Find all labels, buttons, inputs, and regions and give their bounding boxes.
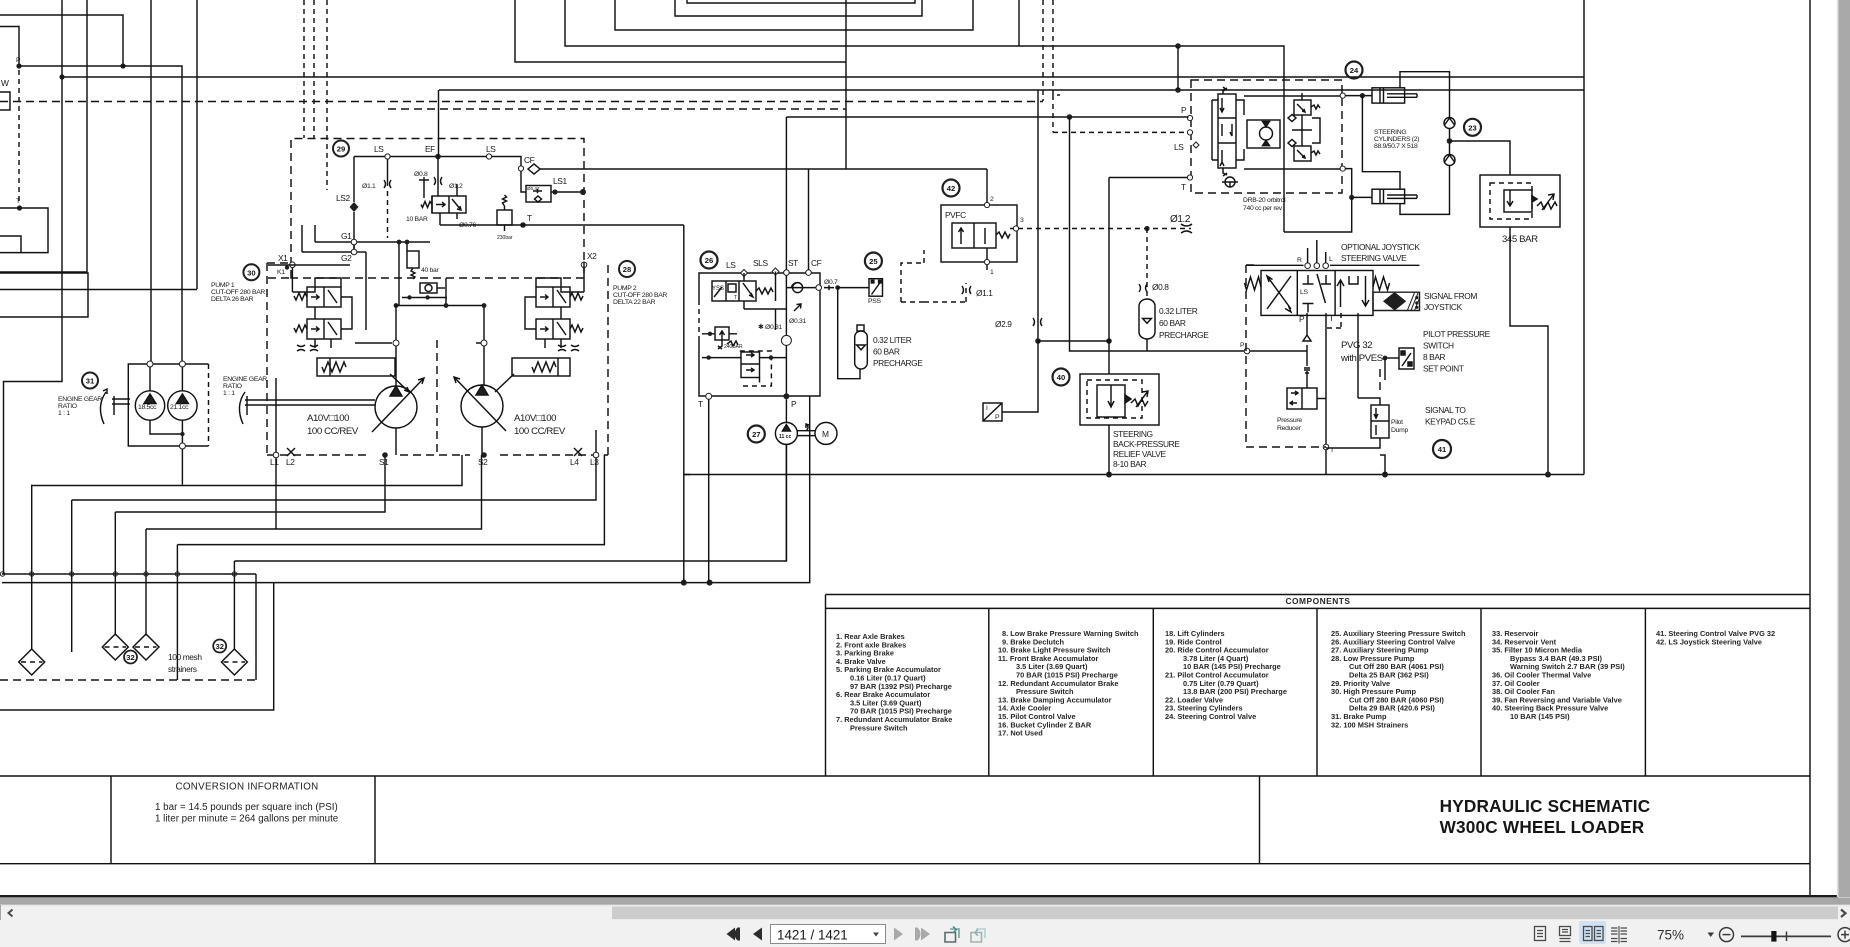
- accumulator 25: [855, 325, 868, 369]
- wire: top nested loop y16: [675, 0, 922, 16]
- dashed box PVG area: [1246, 265, 1380, 447]
- port S1: [382, 452, 388, 458]
- wire: P26 to pump27 and suction: [785, 399, 787, 561]
- wire: cyl2 rod side loop: [1400, 166, 1450, 215]
- gray band under sheet: [0, 897, 1850, 904]
- title divider: [1259, 777, 1261, 864]
- wire: CF to LS1 block: [521, 171, 583, 192]
- wire: x123 from top: [0, 15, 123, 66]
- shaft symbol 31: [112, 396, 130, 415]
- wire: L line to cyl1: [1345, 95, 1372, 97]
- svg-text:COMPONENTS: COMPONENTS: [1285, 596, 1350, 606]
- wire: LS drop dashed: [1326, 313, 1341, 328]
- svg-text:R: R: [1297, 257, 1302, 264]
- svg-text:Ø0.8: Ø0.8: [414, 171, 428, 178]
- joystick symbol: [1373, 292, 1420, 310]
- label circle 32 b: [213, 640, 226, 653]
- svg-text:Ø1.2: Ø1.2: [449, 183, 463, 190]
- wire: relief to bottom: [1510, 227, 1548, 475]
- relief valve small: [497, 195, 512, 231]
- wire: accumulator branch: [838, 288, 860, 379]
- wire: strainer drop x177.4: [176, 545, 178, 680]
- label circle 28: [619, 261, 635, 277]
- wire: dashed inner y109: [388, 108, 846, 110]
- wire: strainer trunk line y574: [2, 573, 256, 575]
- wire: strainer drop x71.7: [71, 500, 73, 652]
- wire: dashed P-T vertical left: [18, 70, 20, 204]
- valve: pump1 ctrl B: [307, 319, 341, 339]
- svg-text:25: 25: [869, 257, 878, 266]
- valve: pump2 ctrl B: [536, 319, 570, 339]
- wire: X1 line: [268, 265, 350, 292]
- orbitrol springs: [1223, 87, 1227, 176]
- node trunk junctions: [0, 572, 236, 576]
- label circle 27: [748, 426, 765, 443]
- table bottom strip line full width: [0, 775, 1810, 777]
- wire: dashed drops x304 x314 x327: [304, 0, 327, 190]
- shaft symbol engine 2: [245, 396, 375, 415]
- zoom slider: [1741, 935, 1831, 937]
- svg-text:30: 30: [247, 268, 255, 277]
- check valve bottom: [1444, 155, 1455, 166]
- components table outline: [826, 595, 1811, 777]
- dashed region steering inner: [924, 229, 1191, 303]
- port T orbitrol: [1187, 175, 1192, 180]
- wire: reservoir dashed top y680: [0, 679, 256, 681]
- port R orbitrol right: [1340, 166, 1345, 171]
- wire: pump31 internals: [150, 367, 182, 443]
- node dot PSS branch: [835, 285, 840, 290]
- wire: x1038 down to IP: [1002, 341, 1038, 412]
- svg-text:LS2: LS2: [336, 193, 350, 203]
- svg-text:L4: L4: [570, 457, 579, 467]
- wire: to 345 relief: [1450, 141, 1511, 175]
- svg-text:28: 28: [623, 265, 631, 274]
- wire: drop x709.6 from block26 T: [708, 399, 710, 582]
- wire: fan line y484.6: [32, 455, 462, 486]
- hscroll thumb: [612, 907, 1838, 920]
- label circle 32 a: [124, 651, 137, 664]
- dashed box pumps: [267, 263, 608, 455]
- wire: pump2 valve stubs: [525, 278, 584, 348]
- svg-text:18.5cc: 18.5cc: [138, 404, 157, 411]
- label circle 42: [943, 180, 960, 197]
- wire: frame right edge: [1583, 0, 1585, 475]
- label circle 23: [1464, 119, 1481, 136]
- orifice 0.31 arrow: [794, 304, 801, 311]
- wire: fan line y529: [146, 455, 482, 529]
- stroker: pump2: [495, 358, 570, 392]
- svg-text:T: T: [16, 198, 20, 205]
- wire: ST riser from block26: [785, 117, 787, 270]
- svg-text:LS: LS: [1300, 289, 1308, 296]
- pump circle 18.5cc: [135, 391, 164, 420]
- dashed box steering corner: [901, 250, 924, 302]
- last-page (disabled): [915, 928, 921, 941]
- view: two pages (active): [1579, 921, 1606, 944]
- I/P transducer: [983, 403, 1002, 421]
- zoom in: [1838, 928, 1850, 942]
- svg-text:P: P: [791, 399, 797, 409]
- spring: ctrl B: [294, 325, 307, 332]
- wire: vertical x846 top to CF line: [845, 0, 847, 169]
- wire: PVFC port2 riser: [986, 169, 988, 203]
- svg-text:P: P: [1181, 105, 1187, 115]
- svg-text:LS: LS: [1174, 142, 1184, 152]
- svg-text:40: 40: [1057, 373, 1065, 382]
- wire: pilot dump connections: [1326, 313, 1385, 475]
- port LS26: [741, 270, 748, 277]
- check diamonds orbitrol: [1288, 115, 1296, 147]
- wire: LS drop into YSS: [744, 272, 776, 302]
- wire: PVFC port1 stub: [986, 248, 988, 270]
- spring: pump2 ctrl A: [570, 293, 583, 300]
- port L2 cross: [287, 448, 295, 456]
- label circle 41: [1433, 440, 1451, 458]
- wire: T line to x683: [440, 224, 684, 226]
- wire: fan line y512: [115, 455, 385, 512]
- wire: LS-EF top line: [354, 157, 521, 169]
- svg-text:SLS: SLS: [753, 258, 768, 268]
- port L4 cross: [574, 448, 582, 456]
- wire: T staircase outer: [0, 208, 48, 253]
- port L orbitrol right: [1340, 93, 1345, 98]
- junction dots on T-return: [681, 580, 687, 586]
- wire: T staircase inner: [0, 236, 21, 253]
- wire: accumulator stub: [1146, 339, 1148, 351]
- node CF: [518, 166, 523, 171]
- node P junction: [16, 63, 21, 68]
- pump circle 21.1cc: [168, 391, 197, 420]
- svg-text:240BAR: 240BAR: [724, 344, 743, 350]
- svg-text:T: T: [734, 295, 737, 301]
- breather symbols pump2: [558, 345, 579, 351]
- svg-text:1 liter per minute = 264 gallo: 1 liter per minute = 264 gallons per min…: [155, 814, 339, 825]
- PVG32 right spring: [1373, 277, 1390, 290]
- wire: y357.6 cross line: [702, 357, 786, 359]
- wire: R supply from bottom: [1284, 197, 1352, 232]
- right > button: [1838, 907, 1850, 920]
- svg-text:HYDRAULIC SCHEMATIC: HYDRAULIC SCHEMATIC: [1440, 796, 1651, 816]
- label circle 24: [1346, 62, 1363, 79]
- strainer S2 diamond: [102, 634, 128, 660]
- wire: left W box: [0, 92, 10, 110]
- svg-text:K1: K1: [277, 269, 285, 276]
- arrow arc engine 2: [239, 392, 245, 424]
- PVFC spring: [996, 232, 1010, 238]
- spring YSS right: [756, 288, 773, 294]
- wire: orbitrol to ports: [1244, 96, 1340, 169]
- port circles pump31: [147, 361, 153, 367]
- wire: fan line y561 P-return: [234, 444, 786, 561]
- wire: pump drains: [276, 378, 596, 529]
- steering wheel symbol: [1222, 177, 1238, 187]
- svg-text:11 cc: 11 cc: [779, 434, 791, 440]
- shaft 27-M: [797, 424, 815, 436]
- svg-text:24: 24: [1350, 66, 1359, 75]
- small relief valves right of spool: [1294, 100, 1320, 115]
- orifice 0.8 steering acc: [1146, 228, 1148, 300]
- wire: PVG32 top port stubs: [1308, 240, 1326, 263]
- reducing valve small 26: [702, 327, 737, 340]
- svg-text:S1: S1: [379, 457, 389, 467]
- svg-text:PSS: PSS: [868, 298, 881, 305]
- label circle 25: [865, 253, 882, 270]
- node box26 right: [816, 285, 822, 291]
- view: scrolling: [1560, 927, 1571, 942]
- svg-text:X2: X2: [587, 251, 597, 261]
- wire: ST vertical inside box: [744, 275, 786, 396]
- valve: pump1 ctrl A: [307, 287, 341, 307]
- svg-text:Ø2.9: Ø2.9: [995, 319, 1012, 329]
- valve: pump2 ctrl A: [536, 287, 570, 307]
- pressure switch PSS: [869, 279, 883, 297]
- next-view icon (lighter): [971, 929, 985, 942]
- svg-text:32: 32: [126, 653, 134, 662]
- node G2: [351, 249, 357, 255]
- wire: spool stubs: [438, 157, 457, 226]
- sheet bottom border: [0, 895, 1838, 897]
- dashed box priority valve 29: [291, 139, 584, 279]
- svg-text:Ø1.1: Ø1.1: [362, 183, 376, 190]
- label circle 26: [701, 252, 718, 269]
- wire: trunk drop to reservoir: [255, 574, 257, 680]
- dashed box orbitrol: [1191, 80, 1342, 193]
- wire: P line top-left corner: [0, 27, 19, 67]
- check valve CF diamond: [528, 164, 540, 174]
- svg-text:1: 1: [990, 269, 994, 276]
- svg-text:M: M: [822, 429, 829, 439]
- node cylinder mid: [1447, 138, 1453, 144]
- svg-text:X1: X1: [278, 253, 288, 263]
- svg-text:1421 / 1421: 1421 / 1421: [777, 928, 848, 943]
- spring: ctrl A: [294, 293, 307, 300]
- wire: pump1 pressure column: [396, 278, 484, 386]
- svg-text:W300C WHEEL LOADER: W300C WHEEL LOADER: [1440, 817, 1645, 837]
- svg-text:L2: L2: [286, 457, 295, 467]
- accumulator steering: [1139, 299, 1155, 339]
- breather symbols pump1: [297, 345, 318, 351]
- svg-text:32: 32: [215, 642, 223, 651]
- port L3: [593, 452, 599, 458]
- PVG32 left spring: [1245, 277, 1262, 290]
- port P orbitrol: [1187, 115, 1192, 120]
- svg-text:CF: CF: [811, 258, 822, 268]
- relief sub 26: [718, 340, 738, 349]
- dashed box spool 26: [740, 351, 772, 386]
- svg-text:23: 23: [1468, 123, 1476, 132]
- spring: pump2 ctrl B: [570, 325, 583, 332]
- svg-text:40 bar: 40 bar: [421, 267, 440, 274]
- bottom inner line: [0, 863, 1810, 865]
- valve YSS solenoid: [712, 281, 756, 301]
- steering cylinder 2: [1372, 189, 1417, 203]
- svg-text:31: 31: [86, 377, 95, 386]
- svg-text:G1: G1: [341, 231, 352, 241]
- svg-text:T: T: [1181, 182, 1186, 192]
- stroker: pump1: [317, 358, 409, 392]
- node dots on return: [1106, 472, 1112, 478]
- wire: vertical x197 to G-line: [196, 0, 198, 289]
- node T left: [17, 205, 22, 210]
- node LS2: [350, 202, 359, 212]
- port SLS: [772, 268, 779, 275]
- conversion box separators: [111, 777, 375, 864]
- arrow arc 31: [100, 389, 107, 424]
- wire: R line to cyl2 head: [1345, 169, 1372, 198]
- svg-text:PVFC: PVFC: [945, 210, 966, 220]
- svg-text:T: T: [698, 399, 703, 409]
- svg-text:41. Steering Control Valve PVG: 41. Steering Control Valve PVG 3242. LS …: [1656, 629, 1775, 646]
- svg-text:✱ Ø0.31: ✱ Ø0.31: [758, 323, 783, 331]
- orifice with check: [420, 283, 445, 293]
- svg-text:L: L: [1329, 256, 1333, 263]
- page number box: [771, 925, 886, 944]
- svg-text:YSS: YSS: [712, 286, 724, 292]
- svg-text:L3: L3: [590, 457, 599, 467]
- svg-text:G2: G2: [341, 253, 352, 263]
- svg-text:ST: ST: [788, 258, 798, 268]
- svg-text:Ø0.7: Ø0.7: [824, 279, 838, 286]
- svg-text:CONVERSION INFORMATION: CONVERSION INFORMATION: [175, 782, 318, 793]
- svg-text:3: 3: [1020, 217, 1024, 224]
- gerotor: [1247, 120, 1280, 148]
- wire: LS node drop: [387, 159, 389, 186]
- svg-text:LS: LS: [726, 260, 736, 270]
- spring: priority spool: [421, 202, 432, 208]
- wire: ST long line y117: [786, 116, 1188, 118]
- vertical scrollbar right: [1839, 0, 1850, 897]
- prev-page button: [753, 928, 762, 941]
- port L1: [273, 452, 279, 458]
- pilot pressure switch: [1399, 348, 1414, 369]
- PVG32 top ports: [1305, 263, 1311, 269]
- wire: T drop PVG: [1325, 313, 1327, 444]
- wire: fan line y582.6 T-return: [2, 396, 810, 582]
- wire: bottom return line: [684, 474, 1584, 476]
- wire: P to pressure reducer: [1306, 371, 1308, 388]
- label circle 31: [82, 373, 98, 389]
- svg-text:LS1: LS1: [553, 176, 567, 186]
- orbitrol spool: [1218, 94, 1236, 168]
- svg-text:27: 27: [752, 430, 760, 439]
- port CF26: [806, 270, 812, 276]
- spool valve 26 lower: [741, 352, 760, 378]
- svg-text:Ø0.47: Ø0.47: [527, 186, 540, 191]
- PVG32 body: [1261, 271, 1373, 316]
- node dots x1178: [1175, 43, 1181, 49]
- wire: fan line y545: [177, 455, 604, 545]
- wire: strainer drop x115.3: [114, 512, 116, 634]
- svg-text:Ø0.31: Ø0.31: [789, 318, 807, 325]
- PVFC ports: [984, 202, 989, 207]
- svg-text:Ø0.8: Ø0.8: [1152, 282, 1169, 292]
- wire: drop x683.8 from T-line: [684, 225, 690, 583]
- wire: LS2 riser: [353, 157, 355, 253]
- node x123 y66: [120, 63, 125, 68]
- wire: P node into PVG: [1244, 348, 1250, 354]
- steering cylinder 1: [1372, 88, 1417, 103]
- svg-text:strainers: strainers: [168, 664, 197, 674]
- svg-text:75%: 75%: [1657, 928, 1684, 943]
- svg-text:26: 26: [705, 256, 713, 265]
- node EF: [435, 154, 441, 160]
- shuttle circle on ST: [781, 335, 791, 345]
- node x62 y77: [59, 74, 64, 79]
- wire: vertical x62 staircase to left: [4, 0, 63, 574]
- wire: fan line y500: [72, 455, 596, 500]
- wire: top nested loop y46 to right drop: [565, 0, 1284, 232]
- svg-text:100 mesh: 100 mesh: [168, 652, 202, 662]
- node T29: [520, 222, 526, 228]
- svg-text:T: T: [1329, 313, 1334, 323]
- svg-text:21.1cc: 21.1cc: [170, 404, 189, 411]
- svg-text:Ø1.1: Ø1.1: [976, 288, 993, 298]
- svg-text:29: 29: [337, 145, 345, 154]
- node dots on G1 line: [397, 240, 402, 245]
- node dots steering P: [1035, 338, 1041, 344]
- next-page (disabled): [894, 928, 903, 941]
- wire: top nested loop y30: [615, 0, 973, 30]
- svg-text:1 bar = 14.5 pounds per square: 1 bar = 14.5 pounds per square inch (PSI…: [155, 802, 338, 813]
- wire: X2 drop: [583, 262, 585, 292]
- wire: strainer drop x146: [145, 529, 147, 634]
- PVFC box: [941, 205, 1017, 262]
- motor M: [815, 422, 837, 444]
- wire: CF line to PVFC: [540, 168, 987, 170]
- wires orbitrol to relief valves: [1292, 93, 1320, 146]
- wire: steering pressure drop to PVG P: [1070, 117, 1308, 351]
- wire: pilot switch link: [1385, 357, 1399, 359]
- port P26: [783, 393, 789, 399]
- valve: priority spool: [432, 196, 466, 213]
- wire: top nested loop y3: [687, 0, 915, 3]
- view: two page scrolling: [1611, 926, 1627, 944]
- LS1 orifice block: [526, 186, 551, 203]
- wire: strainer drop x31.7: [31, 485, 33, 649]
- strainer S1 diamond: [19, 649, 45, 675]
- pump: A10VO100 no2: [454, 377, 506, 431]
- wire: LS dashed to orbitrol: [1053, 95, 1187, 132]
- svg-text:DRB-20 orbitrol740 cc per rev: DRB-20 orbitrol740 cc per rev: [1243, 197, 1286, 212]
- wire: reservoir return y710: [0, 583, 274, 710]
- svg-text:LS: LS: [374, 144, 384, 154]
- wire: long dashed LS line y101.5: [0, 101, 1043, 103]
- zoom out: [1720, 928, 1734, 942]
- svg-text:T: T: [527, 213, 532, 223]
- svg-text:41: 41: [1438, 445, 1447, 454]
- node: stroker pilot taps: [393, 340, 399, 346]
- pilot dump valve: [1371, 405, 1389, 438]
- node X2: [581, 262, 587, 268]
- orifice 1.1 steering: [962, 286, 971, 294]
- node LSrs: [486, 154, 491, 159]
- svg-text:345 BAR: 345 BAR: [1502, 234, 1538, 245]
- wire: pump1 valve stubs: [292, 278, 352, 348]
- node LS: [385, 154, 390, 159]
- wire: dashed drop x1053: [1053, 0, 1060, 95]
- label circle 30: [243, 264, 259, 280]
- relief valve 345 BAR: [1480, 175, 1560, 227]
- wire: staircase y273: [0, 273, 88, 317]
- check under P: [1303, 313, 1311, 373]
- svg-text:Ø1.2: Ø1.2: [1170, 214, 1191, 225]
- wire: to PSS: [838, 287, 869, 289]
- wire: cross link L to cyl2 rod: [1362, 96, 1400, 190]
- svg-text:EF: EF: [425, 144, 435, 154]
- strainer S3 diamond: [133, 634, 159, 660]
- svg-text:W: W: [1, 78, 9, 88]
